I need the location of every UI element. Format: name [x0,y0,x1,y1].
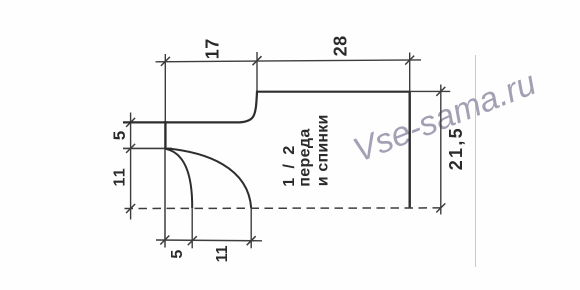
extension line neck vertical [256,52,258,92]
tick bottom right [247,236,256,245]
svg-text:и спинки: и спинки [315,115,332,187]
tick bottom left [160,236,169,245]
top dimension line [156,60,422,62]
extension left vertical lower [164,149,166,248]
svg-text:11: 11 [214,245,231,262]
extension vertical x251 [250,208,252,248]
bottom dimension line [156,239,262,242]
svg-text:28: 28 [330,35,350,56]
svg-text:5: 5 [110,131,129,140]
tick right top [436,87,445,96]
extension line left vertical [164,54,166,122]
tick top left [161,57,170,66]
extension right horizontal [410,90,451,92]
extension vertical x192 [191,209,193,249]
shape left edge [164,121,166,149]
tick right bottom [436,203,445,212]
shape right edge [409,92,411,208]
extension line neck horizontal [123,121,165,123]
tick bottom middle [188,236,197,245]
tick left top [126,118,135,127]
bottom dashed line [125,207,447,210]
svg-text:Vse-sama.ru: Vse-sama.ru [348,64,541,170]
left dimension line [130,113,132,220]
faint scan fold line [475,55,477,267]
armhole outer curve [167,149,251,209]
armhole inner curve [165,149,192,209]
tick top middle [253,56,262,65]
tick left middle [126,144,135,153]
tick left bottom [126,204,135,213]
svg-text:17: 17 [203,38,223,59]
tick top right [405,56,414,65]
svg-text:переда: переда [296,128,313,186]
svg-text:21,5: 21,5 [446,126,466,170]
svg-text:11: 11 [112,167,129,186]
right dimension line [440,85,442,215]
extension line right vertical top [409,53,411,92]
extension line armhole horizontal [123,147,172,149]
shape outline: neckline and top edge [123,92,410,123]
svg-text:5: 5 [169,250,186,259]
